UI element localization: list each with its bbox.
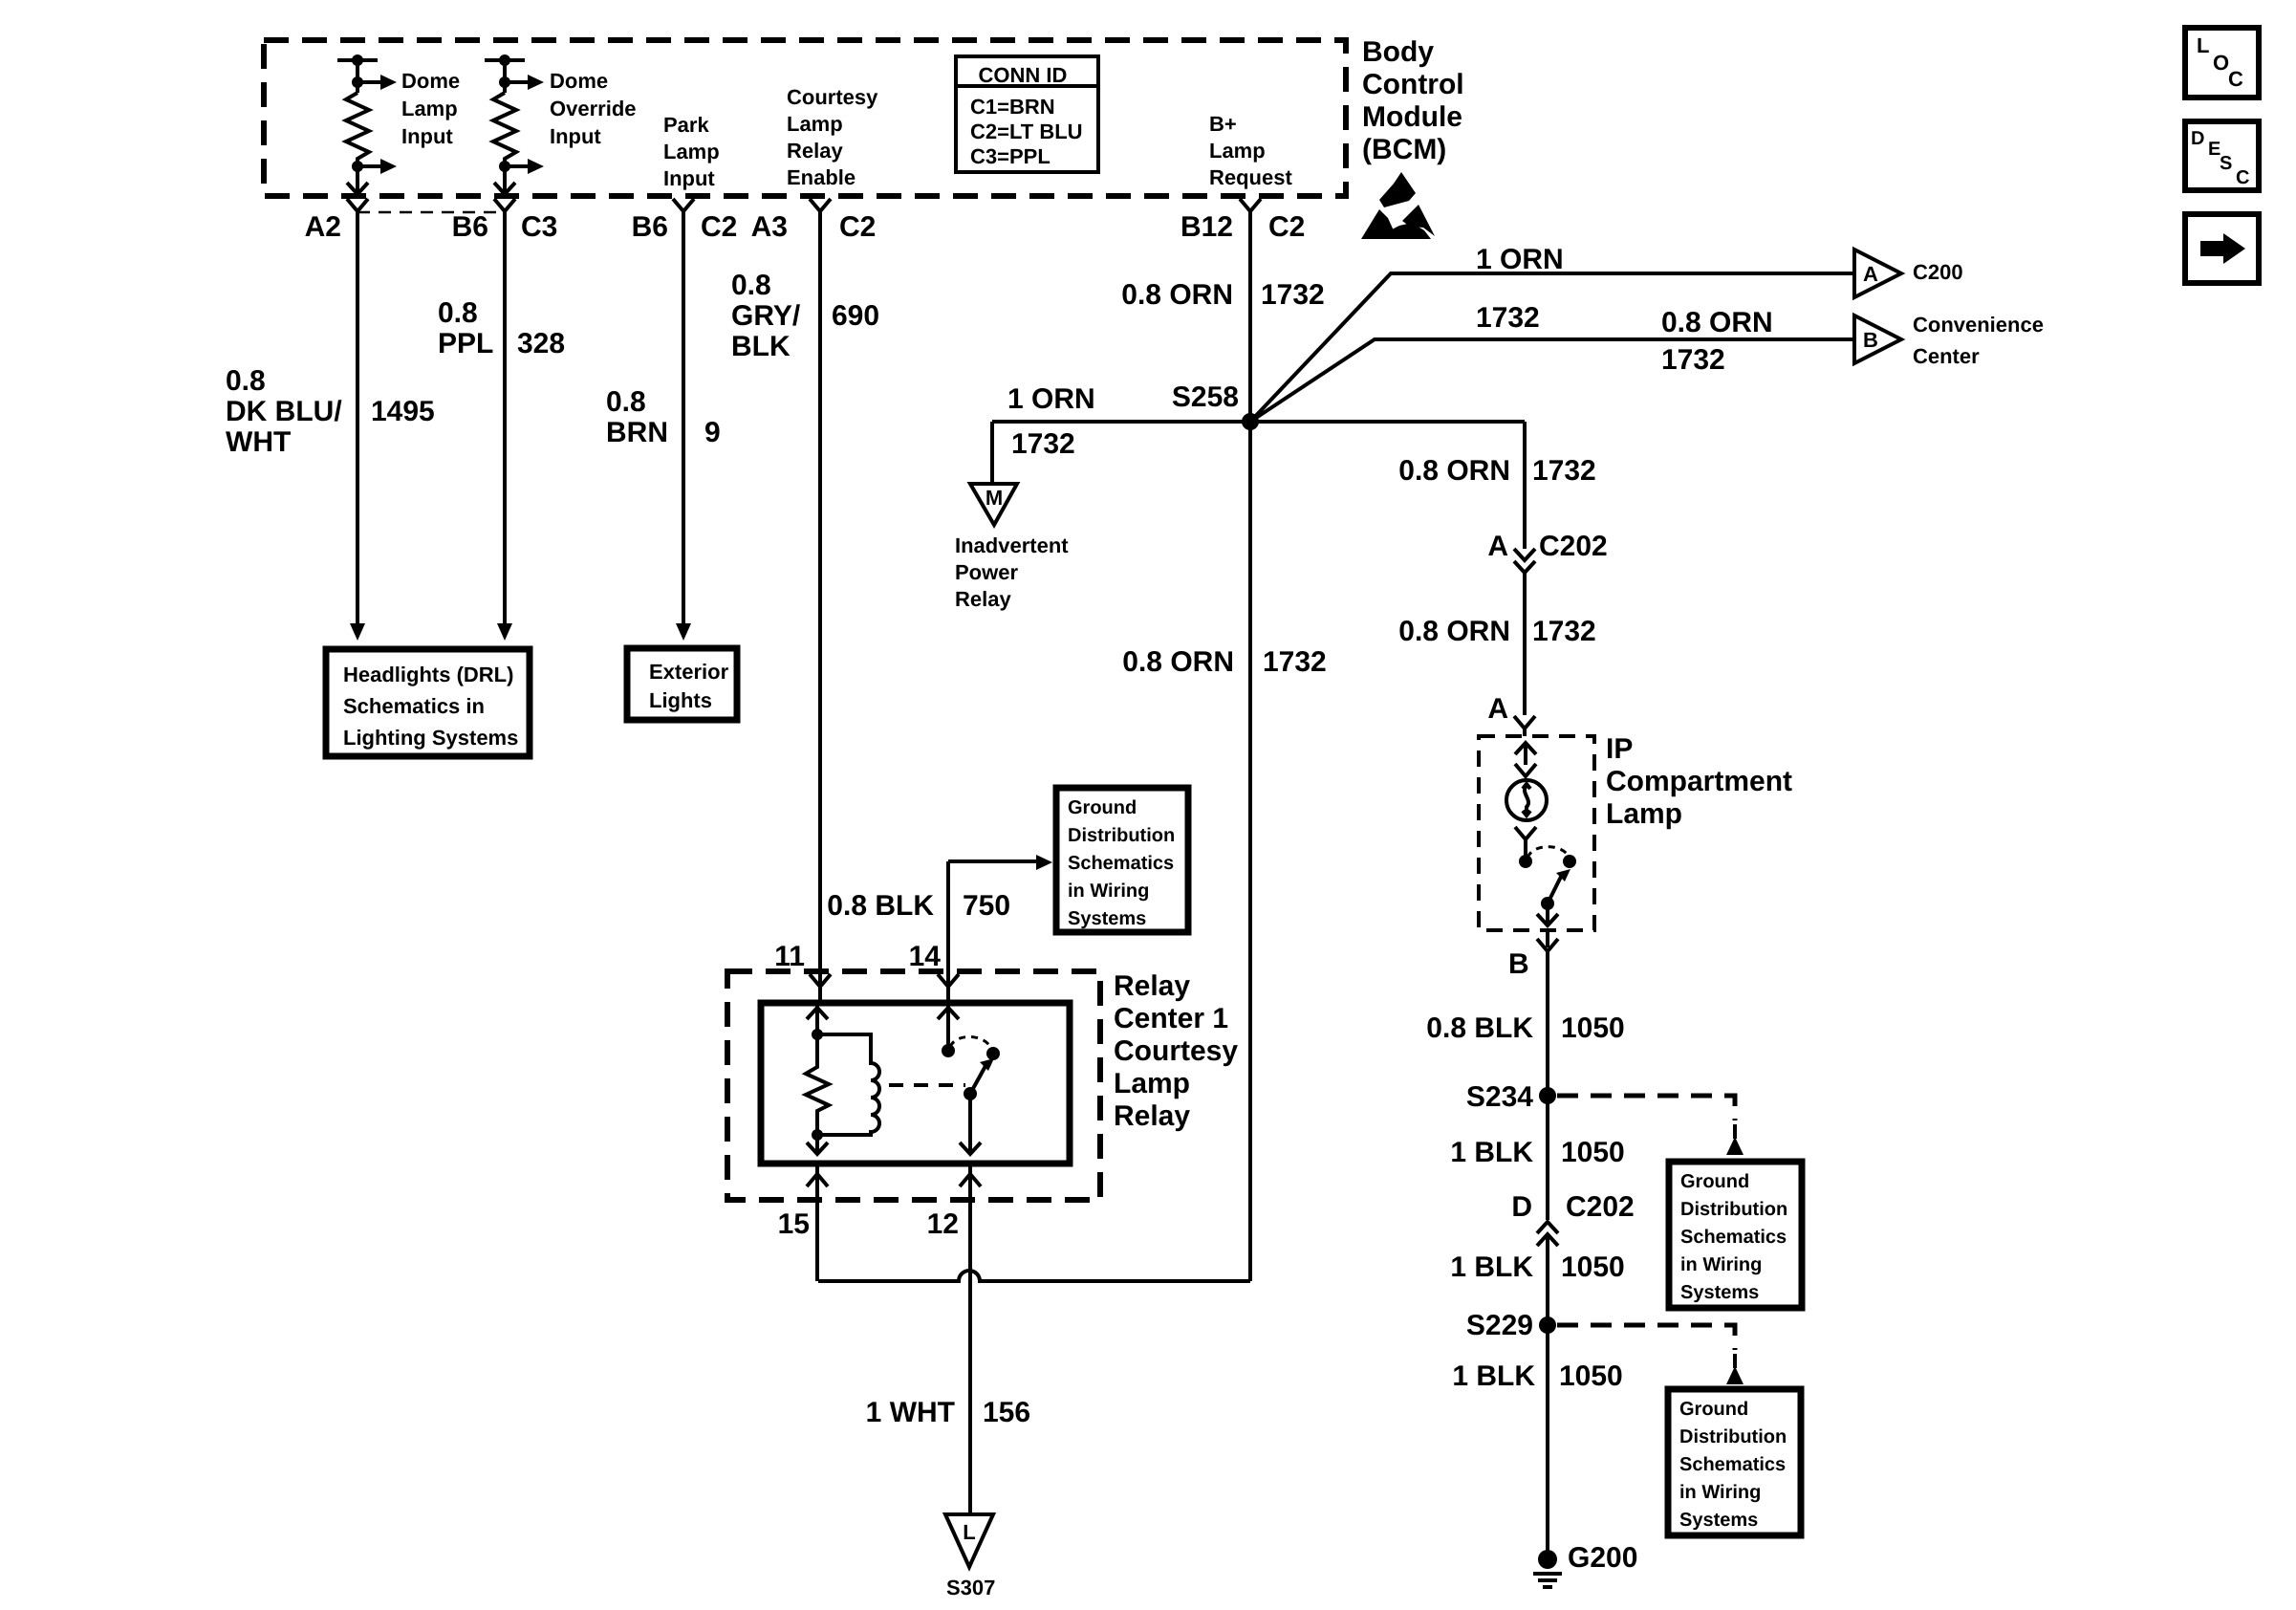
svg-text:Lamp: Lamp bbox=[663, 140, 720, 163]
svg-text:Ground: Ground bbox=[1679, 1399, 1748, 1420]
svg-text:Body: Body bbox=[1362, 36, 1434, 68]
svg-text:1 BLK: 1 BLK bbox=[1450, 1251, 1533, 1283]
svg-text:D: D bbox=[1511, 1191, 1532, 1223]
svg-text:C2: C2 bbox=[839, 211, 876, 243]
svg-text:12: 12 bbox=[927, 1208, 959, 1240]
svg-text:Distribution: Distribution bbox=[1679, 1426, 1787, 1447]
svg-text:Courtesy: Courtesy bbox=[1114, 1035, 1238, 1067]
svg-text:A: A bbox=[1487, 693, 1508, 725]
svg-text:Input: Input bbox=[663, 166, 715, 190]
svg-text:Systems: Systems bbox=[1680, 1282, 1759, 1303]
svg-text:Lamp: Lamp bbox=[1606, 798, 1682, 830]
svg-text:1732: 1732 bbox=[1532, 616, 1596, 647]
svg-text:C202: C202 bbox=[1539, 531, 1608, 562]
svg-text:1 ORN: 1 ORN bbox=[1007, 383, 1095, 415]
svg-text:156: 156 bbox=[983, 1397, 1030, 1428]
svg-text:Lamp: Lamp bbox=[1114, 1068, 1190, 1099]
svg-text:Lamp: Lamp bbox=[401, 97, 458, 120]
svg-text:0.8: 0.8 bbox=[438, 297, 478, 329]
svg-text:C202: C202 bbox=[1566, 1191, 1635, 1223]
svg-text:0.8 ORN: 0.8 ORN bbox=[1398, 455, 1510, 487]
svg-text:Headlights (DRL): Headlights (DRL) bbox=[343, 663, 513, 686]
svg-text:Ground: Ground bbox=[1068, 797, 1137, 818]
svg-text:1732: 1732 bbox=[1661, 344, 1725, 376]
svg-text:Request: Request bbox=[1209, 165, 1292, 189]
svg-text:0.8: 0.8 bbox=[731, 270, 771, 301]
svg-text:CONN ID: CONN ID bbox=[979, 63, 1068, 87]
svg-text:Override: Override bbox=[550, 97, 637, 120]
svg-text:1732: 1732 bbox=[1532, 455, 1596, 487]
svg-text:M: M bbox=[986, 486, 1003, 510]
svg-text:S: S bbox=[2220, 153, 2232, 174]
svg-text:C2: C2 bbox=[701, 211, 737, 243]
svg-text:1 WHT: 1 WHT bbox=[866, 1397, 955, 1428]
svg-text:Park: Park bbox=[663, 113, 709, 137]
svg-text:Exterior: Exterior bbox=[649, 660, 729, 684]
svg-text:1732: 1732 bbox=[1476, 302, 1540, 334]
svg-text:Input: Input bbox=[550, 124, 601, 148]
svg-text:B6: B6 bbox=[452, 211, 488, 243]
svg-text:B: B bbox=[1863, 328, 1878, 352]
svg-text:1 BLK: 1 BLK bbox=[1452, 1360, 1535, 1392]
svg-text:14: 14 bbox=[909, 941, 942, 972]
svg-text:PPL: PPL bbox=[438, 328, 493, 359]
svg-text:C: C bbox=[2236, 167, 2249, 188]
svg-text:S229: S229 bbox=[1466, 1310, 1533, 1341]
svg-text:S307: S307 bbox=[946, 1576, 995, 1599]
svg-text:Relay: Relay bbox=[955, 587, 1011, 611]
svg-text:0.8 ORN: 0.8 ORN bbox=[1661, 307, 1773, 338]
svg-text:15: 15 bbox=[778, 1208, 810, 1240]
svg-text:C3: C3 bbox=[521, 211, 557, 243]
svg-text:328: 328 bbox=[517, 328, 565, 359]
svg-text:Systems: Systems bbox=[1679, 1510, 1758, 1531]
svg-text:1050: 1050 bbox=[1561, 1137, 1625, 1168]
svg-text:BLK: BLK bbox=[731, 331, 791, 362]
svg-text:IP: IP bbox=[1606, 733, 1633, 765]
svg-text:Convenience: Convenience bbox=[1913, 313, 2044, 337]
svg-text:Power: Power bbox=[955, 560, 1018, 584]
svg-text:0.8: 0.8 bbox=[606, 386, 646, 418]
svg-text:C1=BRN: C1=BRN bbox=[970, 95, 1055, 119]
svg-text:(BCM): (BCM) bbox=[1362, 134, 1446, 165]
svg-text:690: 690 bbox=[832, 300, 879, 332]
svg-text:A2: A2 bbox=[305, 211, 341, 243]
svg-text:S258: S258 bbox=[1172, 381, 1239, 413]
svg-text:A3: A3 bbox=[751, 211, 788, 243]
svg-text:1050: 1050 bbox=[1559, 1360, 1623, 1392]
svg-text:9: 9 bbox=[704, 417, 721, 448]
svg-text:L: L bbox=[963, 1520, 975, 1544]
svg-text:Dome: Dome bbox=[401, 69, 460, 93]
svg-text:WHT: WHT bbox=[226, 426, 291, 458]
svg-text:C2: C2 bbox=[1268, 211, 1305, 243]
svg-text:in Wiring: in Wiring bbox=[1068, 881, 1149, 902]
svg-text:BRN: BRN bbox=[606, 417, 668, 448]
svg-text:Lights: Lights bbox=[649, 688, 712, 712]
svg-text:0.8 BLK: 0.8 BLK bbox=[1426, 1012, 1533, 1044]
svg-text:B12: B12 bbox=[1180, 211, 1233, 243]
svg-text:C: C bbox=[2228, 67, 2243, 91]
svg-text:Lamp: Lamp bbox=[787, 112, 843, 136]
svg-text:O: O bbox=[2213, 51, 2229, 75]
svg-text:Distribution: Distribution bbox=[1680, 1199, 1787, 1220]
svg-text:1050: 1050 bbox=[1561, 1251, 1625, 1283]
svg-text:Schematics: Schematics bbox=[1679, 1454, 1786, 1475]
svg-text:C3=PPL: C3=PPL bbox=[970, 144, 1051, 168]
svg-text:DK BLU/: DK BLU/ bbox=[226, 396, 342, 427]
svg-text:Courtesy: Courtesy bbox=[787, 85, 878, 109]
svg-text:11: 11 bbox=[774, 941, 805, 972]
svg-text:Module: Module bbox=[1362, 101, 1462, 133]
svg-text:Lighting Systems: Lighting Systems bbox=[343, 726, 518, 750]
svg-text:Schematics: Schematics bbox=[1680, 1227, 1787, 1248]
svg-text:Relay: Relay bbox=[1114, 1100, 1190, 1132]
svg-text:0.8 ORN: 0.8 ORN bbox=[1122, 646, 1234, 678]
svg-text:B6: B6 bbox=[632, 211, 668, 243]
svg-text:C2=LT BLU: C2=LT BLU bbox=[970, 120, 1083, 143]
svg-text:Systems: Systems bbox=[1068, 908, 1146, 929]
svg-text:1732: 1732 bbox=[1263, 646, 1327, 678]
svg-text:L: L bbox=[2197, 33, 2209, 57]
svg-text:Relay: Relay bbox=[1114, 970, 1190, 1002]
svg-text:S234: S234 bbox=[1466, 1081, 1533, 1113]
svg-text:0.8: 0.8 bbox=[226, 365, 266, 397]
svg-text:Inadvertent: Inadvertent bbox=[955, 533, 1069, 557]
svg-text:750: 750 bbox=[963, 890, 1010, 922]
svg-text:1732: 1732 bbox=[1261, 279, 1325, 311]
svg-text:1495: 1495 bbox=[371, 396, 435, 427]
svg-text:0.8 ORN: 0.8 ORN bbox=[1398, 616, 1510, 647]
svg-text:0.8 ORN: 0.8 ORN bbox=[1121, 279, 1233, 311]
svg-text:A: A bbox=[1487, 531, 1508, 562]
svg-text:Lamp: Lamp bbox=[1209, 139, 1266, 163]
svg-text:Input: Input bbox=[401, 124, 453, 148]
svg-text:Relay: Relay bbox=[787, 139, 843, 163]
svg-text:1 ORN: 1 ORN bbox=[1476, 244, 1564, 275]
svg-text:Center 1: Center 1 bbox=[1114, 1003, 1228, 1034]
svg-text:B+: B+ bbox=[1209, 112, 1237, 136]
svg-text:Enable: Enable bbox=[787, 165, 856, 189]
svg-text:C200: C200 bbox=[1913, 260, 1963, 284]
svg-text:in Wiring: in Wiring bbox=[1679, 1482, 1761, 1503]
svg-text:0.8 BLK: 0.8 BLK bbox=[827, 890, 934, 922]
svg-text:Schematics in: Schematics in bbox=[343, 694, 485, 718]
svg-text:Ground: Ground bbox=[1680, 1171, 1749, 1192]
svg-text:Dome: Dome bbox=[550, 69, 608, 93]
svg-text:1 BLK: 1 BLK bbox=[1450, 1137, 1533, 1168]
svg-text:Center: Center bbox=[1913, 344, 1980, 368]
svg-text:G200: G200 bbox=[1568, 1542, 1637, 1574]
svg-text:A: A bbox=[1863, 262, 1878, 286]
svg-text:1050: 1050 bbox=[1561, 1012, 1625, 1044]
svg-text:Distribution: Distribution bbox=[1068, 825, 1175, 846]
svg-text:Schematics: Schematics bbox=[1068, 853, 1174, 874]
svg-text:1732: 1732 bbox=[1011, 428, 1075, 460]
svg-text:Compartment: Compartment bbox=[1606, 766, 1792, 797]
svg-text:B: B bbox=[1508, 948, 1529, 980]
svg-text:Control: Control bbox=[1362, 69, 1464, 100]
svg-text:D: D bbox=[2191, 128, 2204, 149]
svg-text:GRY/: GRY/ bbox=[731, 300, 801, 332]
svg-text:in Wiring: in Wiring bbox=[1680, 1254, 1762, 1275]
